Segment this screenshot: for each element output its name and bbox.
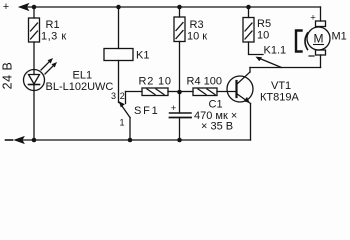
svg-text:+: +: [171, 103, 177, 114]
wire: [33, 7, 35, 18]
svg-text:K1.1: K1.1: [264, 45, 287, 57]
svg-text:R1: R1: [46, 19, 60, 31]
wire: [118, 7, 120, 49]
wire C1 bottom lead: [179, 118, 181, 141]
node top R3: [177, 5, 182, 10]
wire R2 left lead: [126, 91, 143, 93]
wire: [129, 118, 131, 141]
node top K1: [116, 5, 121, 10]
wire: [33, 91, 35, 141]
resistor R5: [243, 18, 254, 43]
wire motor bottom lead: [320, 55, 322, 68]
svg-text:+: +: [3, 1, 9, 13]
wire C1 top lead: [179, 92, 181, 113]
node C1 bottom: [177, 138, 182, 143]
wire collector riser: [249, 68, 251, 73]
bottom rail wire: [22, 139, 251, 141]
wire R4 right lead / base lead: [217, 91, 237, 93]
svg-text:2: 2: [120, 91, 125, 101]
svg-text:EL1: EL1: [73, 70, 93, 82]
wire motor bottom horizontal: [250, 67, 321, 69]
transistor VT1: [227, 72, 253, 104]
resistor R1: [29, 18, 40, 42]
capacitor C1: [170, 113, 192, 118]
svg-text:3: 3: [111, 91, 116, 101]
wire: [179, 42, 181, 93]
svg-text:КТ819А: КТ819А: [260, 92, 299, 104]
svg-text:10: 10: [257, 30, 269, 42]
wire arrow minus: [15, 137, 25, 144]
magnet bracket: [296, 31, 302, 52]
svg-text:10 к: 10 к: [187, 31, 207, 43]
svg-text:24 В: 24 В: [1, 62, 15, 90]
minus terminal: [6, 139, 13, 141]
wire SF1 contact 3: [118, 61, 120, 103]
resistor R4: [193, 88, 217, 96]
wire: [179, 7, 181, 17]
node bottom EL1: [32, 138, 37, 143]
switch SF1 contact 2: [125, 92, 127, 104]
svg-text:1,3 к: 1,3 к: [41, 31, 67, 43]
svg-text:R2 10: R2 10: [139, 76, 172, 88]
resistor R3: [174, 17, 185, 42]
top rail wire: [27, 6, 321, 8]
node top R5: [246, 5, 251, 10]
node R3 bottom: [177, 90, 182, 95]
wire R4 left lead: [180, 91, 194, 93]
magnet arc: [305, 33, 308, 50]
svg-text:SF1: SF1: [134, 105, 160, 117]
svg-text:M1: M1: [332, 31, 347, 43]
LED EL1: [24, 70, 45, 91]
motor M1 terminal top: [316, 21, 326, 27]
wire: [33, 42, 35, 70]
LED arrows: [41, 58, 57, 74]
svg-text:VT1: VT1: [271, 80, 291, 92]
wire arrow plus: [19, 4, 29, 11]
node SF1 pin1: [128, 138, 133, 143]
svg-text:R4 100: R4 100: [187, 76, 222, 88]
svg-text:K1: K1: [136, 50, 149, 62]
motor M1: [307, 27, 330, 50]
svg-text:× 35 В: × 35 В: [201, 121, 233, 133]
switch SF1 blade: [119, 101, 130, 117]
wire R2 right lead: [168, 91, 180, 93]
wire emitter drop: [250, 104, 252, 141]
svg-text:BL-L102UWC: BL-L102UWC: [46, 81, 114, 93]
svg-text:R5: R5: [257, 18, 271, 30]
svg-text:C1: C1: [209, 99, 223, 111]
wire: [248, 7, 250, 18]
relay coil K1: [104, 49, 133, 61]
label M1 minus: [309, 55, 314, 57]
motor M1 terminal bottom: [316, 50, 326, 55]
relay contact K1.1 blade: [256, 57, 282, 68]
svg-text:1: 1: [120, 118, 125, 128]
wire motor top drop: [320, 7, 322, 21]
resistor R2: [142, 88, 168, 96]
wire K1.1 fixed contact: [249, 42, 264, 55]
svg-text:R3: R3: [190, 19, 204, 31]
node top R1: [32, 5, 37, 10]
svg-text:M: M: [314, 32, 324, 46]
